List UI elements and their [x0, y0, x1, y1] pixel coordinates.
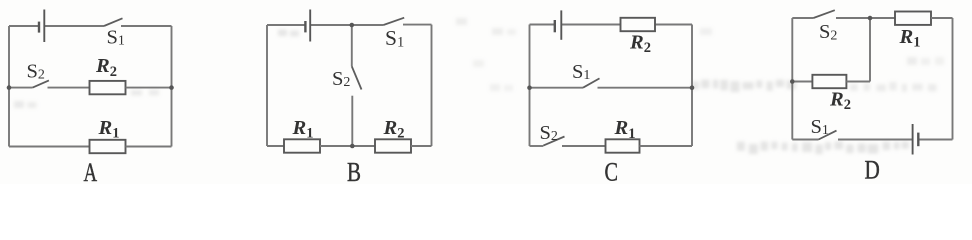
svg-text:D: D	[865, 155, 880, 185]
svg-text:C: C	[605, 157, 619, 185]
svg-text:A: A	[84, 158, 98, 184]
svg-text:B: B	[347, 157, 361, 184]
